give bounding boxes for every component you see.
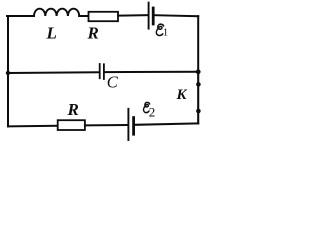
svg-text:R: R: [87, 24, 99, 43]
wire left rail: [7, 16, 9, 126]
battery E2 short plate: [132, 118, 135, 135]
wire right rail through switch K region: [197, 72, 199, 124]
wire resistor R2 to battery E2: [85, 124, 128, 126]
switch K lower contact dot: [196, 109, 201, 114]
wire middle rail right segment: [105, 71, 198, 73]
battery E2 long plate: [127, 109, 129, 140]
wire between inductor and resistor R1: [79, 15, 88, 17]
inductor L: [34, 9, 79, 16]
svg-text:L: L: [46, 24, 57, 43]
svg-text:2: 2: [149, 104, 156, 119]
battery E1 long plate: [148, 3, 150, 29]
svg-text:1: 1: [163, 26, 169, 38]
wire bottom rail left segment: [8, 125, 58, 128]
resistor R1 (top R): [89, 12, 119, 21]
capacitor C left plate: [99, 64, 101, 78]
node junction dot left (middle rail / left rail): [6, 71, 10, 75]
wire top rail left segment: [7, 15, 34, 17]
wire battery E1 to top-right corner: [155, 15, 199, 16]
battery E1 short plate: [152, 8, 155, 24]
switch K upper contact dot: [196, 82, 201, 87]
wire resistor R1 to battery E1: [118, 14, 148, 16]
wire middle rail left segment: [8, 71, 98, 74]
label EMF script E1: [156, 24, 163, 35]
resistor R2 (bottom R): [58, 120, 85, 130]
capacitor C right plate: [103, 64, 105, 79]
svg-text:R: R: [67, 100, 79, 119]
wire right rail upper (corner to middle rail): [197, 16, 199, 72]
svg-text:C: C: [107, 72, 119, 91]
node junction dot right (middle rail / right rail): [196, 69, 201, 74]
svg-text:K: K: [176, 87, 188, 103]
wire battery E2 to bottom-right corner: [135, 123, 198, 124]
label EMF script E2: [144, 102, 150, 112]
